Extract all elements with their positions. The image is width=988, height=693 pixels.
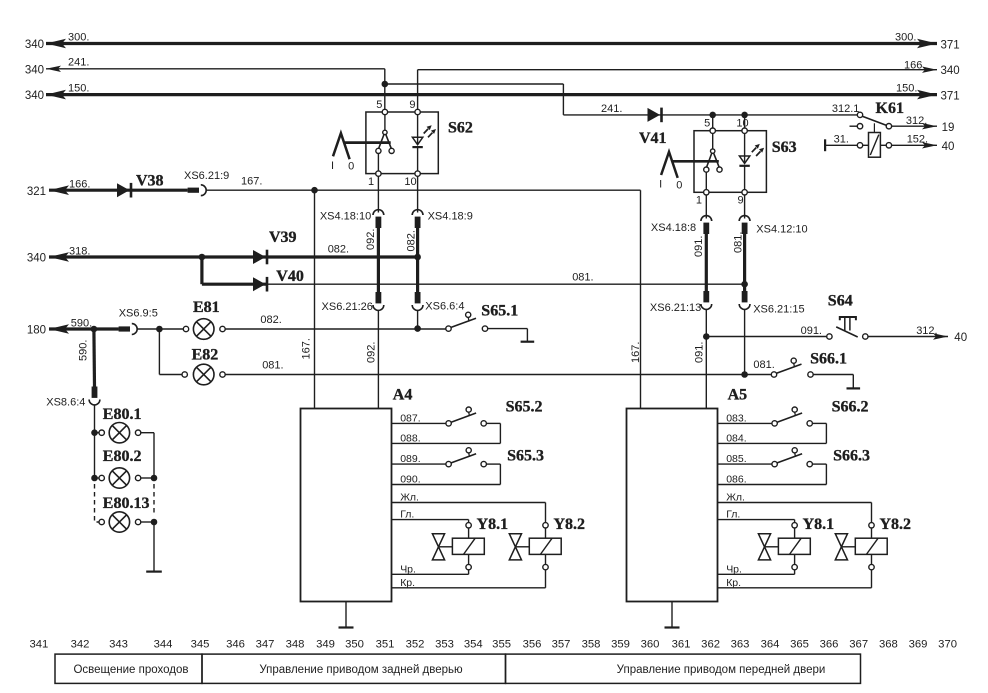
svg-text:9: 9 bbox=[409, 99, 415, 111]
svg-text:367: 367 bbox=[849, 639, 868, 651]
svg-text:371: 371 bbox=[941, 40, 960, 52]
svg-text:363: 363 bbox=[731, 639, 750, 651]
svg-text:9: 9 bbox=[737, 195, 743, 207]
svg-text:369: 369 bbox=[909, 639, 928, 651]
svg-text:348: 348 bbox=[286, 639, 305, 651]
svg-text:370: 370 bbox=[938, 639, 957, 651]
svg-text:XS6.21:13: XS6.21:13 bbox=[650, 302, 701, 314]
svg-text:19: 19 bbox=[942, 122, 955, 134]
svg-text:349: 349 bbox=[316, 639, 335, 651]
svg-text:10: 10 bbox=[736, 118, 748, 130]
svg-text:321: 321 bbox=[27, 186, 46, 198]
svg-text:A4: A4 bbox=[393, 387, 413, 404]
svg-text:Y8.1: Y8.1 bbox=[477, 516, 509, 533]
svg-text:152.: 152. bbox=[907, 134, 928, 146]
svg-text:S66.2: S66.2 bbox=[832, 399, 869, 416]
svg-text:350: 350 bbox=[345, 639, 364, 651]
svg-text:XS4.18:8: XS4.18:8 bbox=[651, 222, 696, 234]
svg-text:S62: S62 bbox=[448, 120, 473, 137]
svg-text:S66.1: S66.1 bbox=[810, 351, 847, 368]
svg-text:343: 343 bbox=[109, 639, 128, 651]
svg-text:Кр.: Кр. bbox=[726, 577, 741, 589]
svg-text:360: 360 bbox=[641, 639, 660, 651]
svg-text:Y8.1: Y8.1 bbox=[803, 516, 835, 533]
svg-text:166.: 166. bbox=[904, 59, 925, 71]
svg-text:312.1: 312.1 bbox=[832, 103, 860, 115]
svg-text:091.: 091. bbox=[694, 342, 706, 363]
svg-text:V39: V39 bbox=[269, 229, 297, 246]
svg-text:357: 357 bbox=[552, 639, 571, 651]
svg-text:241.: 241. bbox=[68, 57, 89, 69]
svg-text:S66.3: S66.3 bbox=[833, 448, 870, 465]
svg-text:090.: 090. bbox=[400, 474, 420, 486]
svg-text:358: 358 bbox=[582, 639, 601, 651]
svg-text:E80.13: E80.13 bbox=[103, 495, 150, 512]
svg-text:180: 180 bbox=[27, 325, 46, 337]
svg-text:091.: 091. bbox=[801, 325, 822, 337]
svg-text:088.: 088. bbox=[400, 432, 420, 444]
svg-text:167.: 167. bbox=[630, 342, 642, 363]
svg-text:364: 364 bbox=[761, 639, 780, 651]
svg-text:353: 353 bbox=[435, 639, 454, 651]
svg-text:E80.2: E80.2 bbox=[103, 448, 142, 465]
svg-text:V41: V41 bbox=[639, 130, 667, 147]
svg-text:Жл.: Жл. bbox=[400, 492, 419, 504]
svg-text:Кр.: Кр. bbox=[400, 577, 415, 589]
svg-text:368: 368 bbox=[879, 639, 898, 651]
svg-text:340: 340 bbox=[941, 65, 960, 77]
svg-text:081.: 081. bbox=[572, 271, 593, 283]
svg-text:340: 340 bbox=[25, 90, 44, 102]
svg-text:082.: 082. bbox=[328, 243, 349, 255]
svg-text:340: 340 bbox=[25, 64, 44, 76]
svg-text:083.: 083. bbox=[726, 412, 746, 424]
svg-text:344: 344 bbox=[154, 639, 173, 651]
svg-text:S65.2: S65.2 bbox=[506, 399, 543, 416]
svg-text:40: 40 bbox=[954, 332, 967, 344]
svg-text:Управление приводом передней д: Управление приводом передней двери bbox=[617, 664, 826, 676]
svg-text:300.: 300. bbox=[895, 31, 916, 43]
svg-text:167.: 167. bbox=[301, 338, 313, 359]
svg-text:XS4.12:10: XS4.12:10 bbox=[756, 224, 807, 236]
svg-text:E81: E81 bbox=[193, 299, 220, 316]
svg-text:082.: 082. bbox=[260, 314, 281, 326]
svg-text:362: 362 bbox=[701, 639, 720, 651]
svg-text:XS8.6:4: XS8.6:4 bbox=[46, 397, 85, 409]
svg-text:150.: 150. bbox=[896, 82, 917, 94]
svg-text:371: 371 bbox=[941, 91, 960, 103]
svg-text:340: 340 bbox=[25, 39, 44, 51]
svg-text:081.: 081. bbox=[733, 232, 745, 253]
svg-text:XS6.21:26: XS6.21:26 bbox=[322, 301, 373, 313]
svg-text:352: 352 bbox=[406, 639, 425, 651]
svg-text:359: 359 bbox=[611, 639, 630, 651]
svg-text:590.: 590. bbox=[78, 340, 90, 361]
svg-text:0: 0 bbox=[676, 179, 682, 191]
svg-text:089.: 089. bbox=[400, 453, 420, 465]
svg-text:5: 5 bbox=[376, 99, 382, 111]
svg-text:XS6.21:9: XS6.21:9 bbox=[184, 170, 229, 182]
svg-text:Жл.: Жл. bbox=[726, 492, 745, 504]
svg-text:312.: 312. bbox=[906, 115, 927, 127]
svg-text:I: I bbox=[659, 179, 662, 191]
svg-text:084.: 084. bbox=[726, 432, 746, 444]
svg-text:1: 1 bbox=[696, 195, 702, 207]
svg-text:S64: S64 bbox=[828, 293, 853, 310]
svg-text:365: 365 bbox=[790, 639, 809, 651]
svg-text:A5: A5 bbox=[728, 387, 748, 404]
svg-text:XS6.9:5: XS6.9:5 bbox=[119, 308, 158, 320]
svg-text:Чр.: Чр. bbox=[726, 563, 742, 575]
svg-text:Гл.: Гл. bbox=[726, 509, 740, 521]
svg-text:XS4.18:10: XS4.18:10 bbox=[320, 211, 371, 223]
svg-text:40: 40 bbox=[942, 141, 955, 153]
svg-text:XS6.6:4: XS6.6:4 bbox=[425, 300, 464, 312]
svg-text:355: 355 bbox=[492, 639, 511, 651]
svg-text:354: 354 bbox=[464, 639, 483, 651]
svg-text:086.: 086. bbox=[726, 474, 746, 486]
svg-text:081.: 081. bbox=[262, 360, 283, 372]
svg-text:351: 351 bbox=[376, 639, 395, 651]
svg-text:318.: 318. bbox=[69, 245, 90, 257]
svg-text:Гл.: Гл. bbox=[400, 509, 414, 521]
svg-text:S63: S63 bbox=[772, 139, 797, 156]
svg-text:1: 1 bbox=[368, 176, 374, 188]
svg-text:081.: 081. bbox=[753, 359, 774, 371]
svg-text:347: 347 bbox=[256, 639, 275, 651]
svg-text:Y8.2: Y8.2 bbox=[554, 516, 586, 533]
svg-text:31.: 31. bbox=[834, 134, 849, 146]
svg-text:E80.1: E80.1 bbox=[103, 406, 142, 423]
svg-text:150.: 150. bbox=[68, 82, 89, 94]
svg-text:S65.3: S65.3 bbox=[507, 448, 544, 465]
svg-text:342: 342 bbox=[71, 639, 90, 651]
svg-text:366: 366 bbox=[820, 639, 839, 651]
svg-text:091.: 091. bbox=[693, 236, 705, 257]
svg-text:0: 0 bbox=[348, 161, 354, 173]
svg-text:I: I bbox=[331, 160, 334, 172]
svg-text:312.: 312. bbox=[916, 325, 937, 337]
svg-text:590.: 590. bbox=[71, 318, 92, 330]
svg-text:V40: V40 bbox=[276, 268, 304, 285]
svg-text:341: 341 bbox=[29, 639, 48, 651]
svg-text:Чр.: Чр. bbox=[400, 563, 416, 575]
svg-text:361: 361 bbox=[672, 639, 691, 651]
svg-text:346: 346 bbox=[226, 639, 245, 651]
svg-text:K61: K61 bbox=[876, 100, 904, 117]
svg-text:XS6.21:15: XS6.21:15 bbox=[753, 304, 804, 316]
svg-text:356: 356 bbox=[523, 639, 542, 651]
svg-text:340: 340 bbox=[27, 253, 46, 265]
svg-text:082.: 082. bbox=[406, 230, 418, 251]
svg-text:167.: 167. bbox=[241, 176, 262, 188]
svg-text:300.: 300. bbox=[68, 31, 89, 43]
svg-text:345: 345 bbox=[191, 639, 210, 651]
svg-text:087.: 087. bbox=[400, 412, 420, 424]
svg-text:092.: 092. bbox=[366, 342, 378, 363]
svg-text:Освещение проходов: Освещение проходов bbox=[73, 664, 188, 676]
svg-text:085.: 085. bbox=[726, 453, 746, 465]
svg-text:241.: 241. bbox=[601, 103, 622, 115]
svg-text:E82: E82 bbox=[192, 347, 219, 364]
svg-text:Y8.2: Y8.2 bbox=[880, 516, 912, 533]
svg-text:5: 5 bbox=[704, 118, 710, 130]
svg-text:V38: V38 bbox=[136, 173, 164, 190]
svg-text:10: 10 bbox=[404, 176, 416, 188]
svg-text:092.: 092. bbox=[365, 229, 377, 250]
svg-text:S65.1: S65.1 bbox=[481, 303, 518, 320]
svg-text:166.: 166. bbox=[69, 178, 90, 190]
svg-text:Управление приводом задней две: Управление приводом задней дверью bbox=[259, 664, 463, 676]
svg-text:XS4.18:9: XS4.18:9 bbox=[428, 211, 473, 223]
